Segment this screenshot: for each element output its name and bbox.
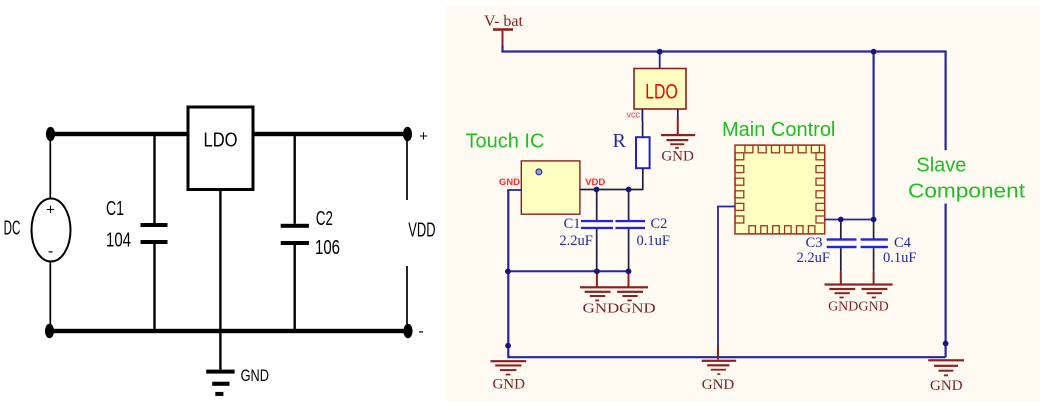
ground symbol LDO GND [661, 134, 695, 149]
schematic sheet background (right panel) [445, 6, 1040, 401]
regulator LDO (yellow) [634, 52, 686, 110]
node bottom-left [45, 324, 54, 338]
svg-text:Touch IC: Touch IC [466, 131, 545, 153]
svg-text:GND: GND [241, 366, 269, 385]
ground stub C2 [628, 271, 630, 286]
wire Touch IC right pin (VDD net) [580, 189, 643, 191]
regulator LDO box [188, 107, 253, 190]
ground symbol bottom-left [491, 360, 527, 375]
ground symbol bottom-middle [702, 360, 737, 375]
svg-text:GNDGND: GNDGND [828, 300, 889, 315]
wire bottom bus [49, 329, 408, 333]
wire bottom GND rail [508, 190, 945, 357]
ground symbol bottom-right [928, 359, 964, 376]
svg-text:C2: C2 [651, 216, 668, 232]
title Slave Component [908, 155, 1025, 203]
ground stub C1 [596, 271, 598, 286]
svg-text:VDD: VDD [408, 220, 435, 242]
svg-text:C3: C3 [806, 235, 823, 251]
node bottom-right [403, 324, 412, 338]
svg-text:-: - [48, 243, 53, 260]
svg-text:0.1uF: 0.1uF [883, 250, 916, 266]
wire LDO bottom lead [219, 190, 221, 330]
svg-text:LDO: LDO [645, 80, 678, 103]
svg-text:104: 104 [106, 229, 131, 251]
port VDD plus lead [406, 141, 408, 200]
power port V-bat [484, 13, 524, 47]
svg-text:2.2uF: 2.2uF [797, 250, 830, 266]
ground stub mid [717, 346, 719, 360]
IC Main Control box [735, 145, 825, 234]
svg-text:C2: C2 [316, 208, 333, 230]
svg-text:R: R [613, 130, 627, 152]
node top-right [403, 127, 412, 141]
ground stub LDO [677, 118, 679, 134]
svg-text:GND: GND [492, 377, 525, 393]
svg-text:0.1uF: 0.1uF [637, 233, 670, 249]
svg-text:C4: C4 [894, 235, 912, 251]
ground stub C4 [873, 272, 875, 284]
svg-text:DC: DC [4, 217, 21, 239]
svg-text:2.2uF: 2.2uF [559, 233, 592, 249]
wire Main Control right pin [825, 219, 874, 221]
wire LDO right pin [677, 109, 679, 119]
wire branch vertical x874 [872, 52, 874, 220]
capacitor C4 [861, 220, 888, 272]
ground stub C3 [840, 272, 842, 284]
wire slave vertical lower segment [944, 204, 946, 358]
wire Main Control left pin to GND [718, 207, 735, 347]
IC Main Control pins [735, 145, 825, 234]
svg-text:C1: C1 [564, 216, 581, 232]
capacitor C1 [153, 136, 155, 223]
svg-text:V- bat: V- bat [484, 13, 524, 30]
svg-text:106: 106 [315, 237, 340, 259]
svg-text:GND: GND [661, 149, 694, 165]
svg-text:vcc: vcc [627, 110, 641, 120]
svg-text:+: + [46, 202, 55, 219]
wire DC bottom lead [49, 261, 51, 331]
svg-text:Slave: Slave [916, 155, 966, 177]
ground GND [219, 333, 221, 370]
ground symbols C3 C4 [825, 283, 893, 298]
resistor R [636, 137, 650, 168]
IC Touch box [521, 161, 580, 214]
capacitor C1 (right) [581, 190, 613, 272]
wire top bus [49, 132, 408, 136]
wire R bottom lead [642, 168, 644, 190]
wire top bus [503, 46, 946, 151]
wire DC top lead [49, 134, 51, 199]
svg-text:GND: GND [702, 377, 735, 393]
svg-text:Main Control: Main Control [722, 119, 835, 141]
wire LDO left pin to R [641, 109, 643, 121]
svg-text:-: - [418, 323, 423, 340]
node top-left [46, 127, 55, 141]
svg-text:Component: Component [908, 181, 1025, 203]
svg-text:GND: GND [930, 378, 963, 394]
svg-text:C1: C1 [106, 198, 124, 220]
svg-text:VDD: VDD [585, 177, 605, 188]
capacitor C2 [294, 136, 296, 224]
svg-text:+: + [419, 128, 428, 145]
ground symbols C1 C2 [580, 286, 648, 301]
svg-text:GND: GND [499, 177, 520, 188]
capacitor C3 [827, 220, 857, 272]
port VDD minus lead [406, 266, 408, 324]
svg-text:LDO: LDO [204, 130, 238, 152]
DC source V1 [32, 199, 71, 262]
wire Touch IC left pin [507, 189, 521, 191]
svg-text:GNDGND: GNDGND [583, 302, 656, 317]
wire caps bottom rail [508, 270, 628, 272]
capacitor C2 (right) [616, 190, 646, 272]
